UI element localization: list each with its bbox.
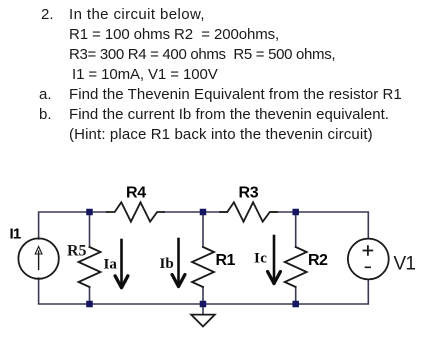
svg-text:R1: R1 — [216, 252, 236, 269]
svg-text:R5: R5 — [67, 243, 87, 260]
wire top-left segment — [39, 212, 107, 239]
junction node (R5 bottom) — [86, 301, 93, 308]
resistor R3 — [220, 202, 277, 221]
wire R2 branch stubs — [295, 212, 297, 304]
svg-text:V1: V1 — [394, 254, 416, 275]
svg-text:Ic: Ic — [254, 251, 267, 267]
current arrow Ib — [177, 239, 180, 282]
svg-text:Ia: Ia — [104, 256, 118, 272]
resistor R2 — [285, 247, 307, 287]
resistor R5 — [79, 247, 101, 287]
junction node (R2 bottom) — [292, 301, 299, 308]
resistor R4 — [107, 202, 164, 221]
svg-text:R3: R3 — [239, 185, 259, 202]
wire R5 branch stubs — [89, 212, 91, 304]
junction node (R2 top) — [292, 209, 299, 216]
junction node (R1 bottom / ground) — [200, 301, 207, 308]
wire top middle segment (R4 right to R3 left) — [164, 211, 227, 213]
ground — [202, 307, 204, 315]
resistor R1 — [192, 247, 214, 287]
wire top-right segment — [270, 212, 368, 239]
current source I1 — [18, 238, 58, 278]
current arrow Ia — [120, 240, 123, 284]
wire R1 branch stubs — [202, 212, 204, 304]
svg-text:Ib: Ib — [160, 256, 174, 272]
junction node (R5 top) — [86, 209, 93, 216]
problem text — [41, 5, 54, 25]
junction node (R1 top) — [200, 209, 207, 216]
svg-text:R2: R2 — [308, 252, 328, 269]
voltage source V1 — [348, 239, 389, 280]
svg-text:R4: R4 — [126, 185, 146, 202]
wire bottom rail — [39, 278, 369, 304]
current arrow Ic — [273, 236, 276, 279]
svg-text:I1: I1 — [10, 226, 21, 243]
